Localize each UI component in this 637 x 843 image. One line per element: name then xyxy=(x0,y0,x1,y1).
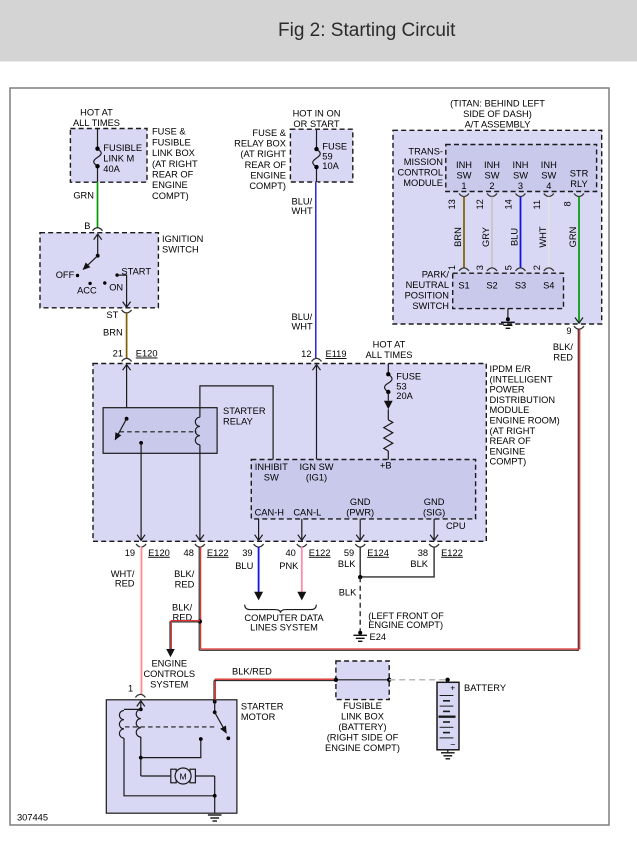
svg-text:GRN: GRN xyxy=(568,227,578,248)
svg-text:ON: ON xyxy=(109,282,123,292)
svg-text:E120: E120 xyxy=(136,349,158,359)
starter motor internals xyxy=(119,701,215,796)
svg-text:ENGINE COMPT): ENGINE COMPT) xyxy=(325,743,400,753)
svg-text:(IG1): (IG1) xyxy=(306,473,327,483)
svg-text:A/T ASSEMBLY: A/T ASSEMBLY xyxy=(465,119,531,129)
svg-text:STARTER: STARTER xyxy=(223,406,266,416)
title bar xyxy=(0,0,637,62)
arrow into IPDM from 21 xyxy=(123,365,131,419)
svg-text:OFF: OFF xyxy=(56,270,75,280)
svg-text:12: 12 xyxy=(475,199,485,209)
svg-text:13: 13 xyxy=(447,199,457,209)
svg-text:20A: 20A xyxy=(396,391,413,401)
svg-text:ACC: ACC xyxy=(77,285,97,295)
svg-text:STARTER: STARTER xyxy=(241,702,284,712)
svg-text:INHIBIT: INHIBIT xyxy=(255,462,288,472)
svg-text:MODULE: MODULE xyxy=(490,405,530,415)
svg-text:FUSE: FUSE xyxy=(396,372,421,382)
svg-text:CAN-L: CAN-L xyxy=(293,507,321,517)
svg-text:HOT IN ON: HOT IN ON xyxy=(293,108,341,118)
wire BLK/RED pin 48 down xyxy=(172,547,202,651)
ground (PNP switch) xyxy=(501,309,515,329)
svg-text:10A: 10A xyxy=(322,161,339,171)
svg-text:ENGINE: ENGINE xyxy=(490,446,526,456)
svg-text:MODULE: MODULE xyxy=(403,178,443,188)
svg-text:40A: 40A xyxy=(103,164,120,174)
svg-text:COMPT): COMPT) xyxy=(152,191,189,201)
wire WHT TCM to S4 xyxy=(538,197,549,269)
svg-text:BLK: BLK xyxy=(410,559,428,569)
connector B (ignition switch) xyxy=(84,221,102,231)
svg-text:ENGINE ROOM): ENGINE ROOM) xyxy=(490,416,560,426)
wire BLK/RED branch to engine controls system xyxy=(143,621,199,690)
svg-text:HOT AT: HOT AT xyxy=(373,339,406,349)
svg-text:FUSIBLE: FUSIBLE xyxy=(152,137,191,147)
svg-text:307445: 307445 xyxy=(17,813,48,823)
svg-text:OR START: OR START xyxy=(293,119,339,129)
svg-text:BATTERY: BATTERY xyxy=(464,683,506,693)
svg-text:RLY: RLY xyxy=(570,179,587,189)
svg-text:BLU: BLU xyxy=(235,561,253,571)
CPU box xyxy=(251,460,475,532)
svg-text:SIDE OF DASH): SIDE OF DASH) xyxy=(463,109,532,119)
svg-text:(AT RIGHT: (AT RIGHT xyxy=(490,426,536,436)
svg-text:IPDM E/R: IPDM E/R xyxy=(490,364,532,374)
svg-text:(AT RIGHT: (AT RIGHT xyxy=(152,159,198,169)
wire BLK/RED horizontal run to pin 9 riser xyxy=(199,649,580,650)
connector 12 E119 xyxy=(301,349,346,361)
svg-text:SWITCH: SWITCH xyxy=(162,245,199,255)
starter relay K1 xyxy=(103,406,266,453)
svg-text:REAR OF: REAR OF xyxy=(245,160,287,170)
TCM pin labels INH SW 1-4, STR RLY xyxy=(456,160,589,191)
wire BLU TCM to S3 xyxy=(510,197,521,269)
svg-text:+: + xyxy=(450,683,455,693)
svg-text:COMPT): COMPT) xyxy=(490,457,527,467)
svg-text:INH: INH xyxy=(456,160,472,170)
svg-text:WHT: WHT xyxy=(292,206,313,216)
connector 9 xyxy=(566,326,584,336)
svg-text:INH: INH xyxy=(541,160,557,170)
svg-text:(TITAN: BEHIND LEFT: (TITAN: BEHIND LEFT xyxy=(450,98,545,108)
relay coil xyxy=(195,386,273,540)
resistor (IPDM internal) xyxy=(384,420,393,460)
svg-text:8: 8 xyxy=(563,201,573,206)
wire BRN TCM to S1 xyxy=(453,197,464,269)
fuse 59 10A xyxy=(313,130,347,183)
svg-text:LINES SYSTEM: LINES SYSTEM xyxy=(250,623,318,633)
ignition switch xyxy=(40,233,203,308)
svg-text:19: 19 xyxy=(125,548,135,558)
svg-text:BLK/RED: BLK/RED xyxy=(232,666,272,676)
svg-text:RELAY: RELAY xyxy=(223,417,253,427)
svg-text:CONTROLS: CONTROLS xyxy=(143,669,195,679)
svg-text:DISTRIBUTION: DISTRIBUTION xyxy=(490,395,556,405)
svg-text:LINK M: LINK M xyxy=(103,154,134,164)
svg-text:1: 1 xyxy=(128,684,133,694)
A/T assembly box xyxy=(393,98,602,324)
svg-text:PNK: PNK xyxy=(279,561,299,571)
svg-text:S1: S1 xyxy=(458,281,469,291)
wire BLU pin 39 to computer data lines xyxy=(235,547,263,601)
connector 21 E120 xyxy=(113,349,158,362)
svg-text:MOTOR: MOTOR xyxy=(241,712,276,722)
svg-text:BLK/: BLK/ xyxy=(172,603,193,613)
hot at all times label (fuse 53 feed) xyxy=(365,339,412,360)
svg-text:21: 21 xyxy=(113,349,123,359)
svg-text:WHT: WHT xyxy=(292,322,313,332)
svg-text:38: 38 xyxy=(418,548,428,558)
svg-text:3: 3 xyxy=(475,265,485,270)
wire BLK/RED battery feed to starter xyxy=(214,666,336,700)
fusible link box internal wire xyxy=(334,678,392,682)
svg-text:GRY: GRY xyxy=(481,227,491,247)
svg-text:RELAY BOX: RELAY BOX xyxy=(234,139,286,149)
svg-text:(INTELLIGENT: (INTELLIGENT xyxy=(490,374,553,384)
svg-text:SW: SW xyxy=(264,473,279,483)
park/neutral position switch S1 xyxy=(405,270,564,312)
IPDM bottom connectors row xyxy=(125,544,463,558)
wire BLU/WHT fuse 59 to 12/E119 xyxy=(292,182,318,359)
svg-text:BLU/: BLU/ xyxy=(292,312,313,322)
svg-text:LINK BOX: LINK BOX xyxy=(152,148,195,158)
svg-text:BRN: BRN xyxy=(103,328,123,338)
svg-text:FUSE &: FUSE & xyxy=(252,128,286,138)
svg-text:S3: S3 xyxy=(515,281,526,291)
svg-text:CONTROL: CONTROL xyxy=(398,168,443,178)
IPDM E/R box xyxy=(93,364,560,542)
svg-text:STR: STR xyxy=(570,169,589,179)
svg-text:IGNITION: IGNITION xyxy=(162,234,203,244)
svg-text:14: 14 xyxy=(504,199,514,209)
fusible link M 40A xyxy=(94,129,142,182)
relay switch xyxy=(115,417,197,445)
svg-text:GND: GND xyxy=(424,497,445,507)
svg-text:GRN: GRN xyxy=(73,191,94,201)
svg-text:SWITCH: SWITCH xyxy=(412,301,449,311)
svg-text:REAR OF: REAR OF xyxy=(490,436,532,446)
motor M xyxy=(171,768,196,784)
svg-text:MISSION: MISSION xyxy=(404,157,443,167)
starter motor output side xyxy=(195,776,216,813)
svg-text:4: 4 xyxy=(546,181,551,191)
svg-text:E24: E24 xyxy=(370,632,387,642)
svg-text:E119: E119 xyxy=(326,349,347,359)
transmission control module U1 xyxy=(398,145,597,192)
svg-text:IGN SW: IGN SW xyxy=(299,462,333,472)
connector ST xyxy=(106,310,131,320)
svg-text:FUSIBLE: FUSIBLE xyxy=(103,143,142,153)
svg-text:TRANS-: TRANS- xyxy=(408,147,443,157)
svg-text:SW: SW xyxy=(513,171,528,181)
ground (battery) xyxy=(441,750,455,759)
starter motor xyxy=(106,700,283,813)
svg-text:INH: INH xyxy=(512,160,528,170)
svg-text:SW: SW xyxy=(485,171,500,181)
wire GRN STR RLY to pin 9 xyxy=(568,197,583,323)
svg-text:ENGINE COMPT): ENGINE COMPT) xyxy=(368,620,443,630)
fuse 53 20A xyxy=(384,364,421,420)
relay contact wire to pin 19 xyxy=(137,443,145,540)
svg-text:BLK: BLK xyxy=(339,588,357,598)
svg-text:POWER: POWER xyxy=(490,385,525,395)
svg-text:1: 1 xyxy=(461,181,466,191)
wire PNK pin 40 to computer data lines xyxy=(279,547,306,601)
svg-text:+B: +B xyxy=(380,460,392,470)
svg-text:BLK/: BLK/ xyxy=(553,342,574,352)
svg-text:59: 59 xyxy=(322,151,332,161)
svg-text:SYSTEM: SYSTEM xyxy=(150,679,188,689)
svg-text:HOT AT: HOT AT xyxy=(80,107,113,117)
arrow into IPDM from 12 + IGN SW line xyxy=(313,365,321,460)
svg-text:(PWR): (PWR) xyxy=(346,507,374,517)
connector 1 (starter motor) xyxy=(128,684,145,698)
svg-text:11: 11 xyxy=(532,200,542,210)
computer data lines system brace xyxy=(244,605,324,633)
svg-text:LINK BOX: LINK BOX xyxy=(341,712,384,722)
svg-text:BLK/: BLK/ xyxy=(174,569,195,579)
fuse & relay box (top middle) xyxy=(234,108,353,191)
fuse & fusible link box (top left) xyxy=(70,107,198,201)
TCM bottom connectors (pins 13,12,14,11,8) xyxy=(447,194,584,210)
svg-text:FUSIBLE: FUSIBLE xyxy=(343,701,382,711)
svg-text:COMPT): COMPT) xyxy=(249,181,286,191)
svg-text:RED: RED xyxy=(175,580,195,590)
svg-text:BRN: BRN xyxy=(453,227,463,247)
dashed wire to battery xyxy=(389,678,450,684)
svg-text:E122: E122 xyxy=(441,548,463,558)
svg-text:SW: SW xyxy=(457,171,472,181)
svg-text:RED: RED xyxy=(553,352,573,362)
svg-text:59: 59 xyxy=(344,548,354,558)
svg-text:53: 53 xyxy=(396,381,406,391)
ignition switch internals xyxy=(56,234,152,307)
wire BRN ST to 21/E120 xyxy=(103,313,127,359)
svg-text:WHT/: WHT/ xyxy=(111,569,135,579)
svg-text:GND: GND xyxy=(350,497,371,507)
svg-text:WHT: WHT xyxy=(538,226,548,247)
svg-text:5: 5 xyxy=(504,265,514,270)
svg-text:COMPUTER DATA: COMPUTER DATA xyxy=(244,613,324,623)
svg-text:2: 2 xyxy=(532,265,542,270)
svg-text:RED: RED xyxy=(115,579,135,589)
ground (starter motor) xyxy=(208,815,222,821)
fusible link box (battery) xyxy=(325,661,400,753)
wire BLK/RED pin 9 down to junction xyxy=(553,329,580,650)
wire BLK pin 59 xyxy=(338,547,360,578)
svg-text:2: 2 xyxy=(489,181,494,191)
battery B1 xyxy=(437,682,506,750)
svg-text:Fig 2: Starting Circuit: Fig 2: Starting Circuit xyxy=(278,20,456,41)
svg-text:40: 40 xyxy=(285,548,295,558)
svg-text:ST: ST xyxy=(106,310,118,320)
svg-text:FUSE: FUSE xyxy=(322,142,347,152)
wire BLK dashed to ground E24 xyxy=(339,577,360,631)
svg-text:39: 39 xyxy=(242,548,252,558)
svg-text:3: 3 xyxy=(518,181,523,191)
svg-text:NEUTRAL: NEUTRAL xyxy=(406,280,449,290)
svg-text:BLU: BLU xyxy=(510,228,520,246)
starter switch xyxy=(213,700,230,740)
svg-text:FUSE &: FUSE & xyxy=(152,127,186,137)
svg-text:ENGINE: ENGINE xyxy=(250,170,286,180)
svg-text:SW: SW xyxy=(541,171,556,181)
svg-text:PARK/: PARK/ xyxy=(422,270,450,280)
svg-text:48: 48 xyxy=(184,548,194,558)
svg-text:ENGINE: ENGINE xyxy=(151,659,187,669)
svg-text:INH: INH xyxy=(484,160,500,170)
svg-text:CAN-H: CAN-H xyxy=(255,507,284,517)
svg-text:BLK: BLK xyxy=(338,559,356,569)
svg-text:CPU: CPU xyxy=(446,521,466,531)
wire GRY TCM to S2 xyxy=(481,197,492,269)
svg-text:(SIG): (SIG) xyxy=(423,507,445,517)
svg-text:ENGINE: ENGINE xyxy=(152,180,188,190)
wire GRN fusible link to ignition switch B xyxy=(73,182,97,228)
arrow at pin 48 xyxy=(196,535,204,541)
svg-text:E120: E120 xyxy=(148,548,170,558)
svg-text:(BATTERY): (BATTERY) xyxy=(338,722,386,732)
svg-text:E122: E122 xyxy=(309,548,331,558)
wire WHT/RED pin 19 to starter motor 1 xyxy=(111,547,142,695)
ground E24 xyxy=(353,611,444,642)
svg-text:9: 9 xyxy=(566,326,571,336)
PNP connector pins 1,3,5,2 xyxy=(447,265,554,271)
svg-text:E124: E124 xyxy=(367,548,389,558)
svg-text:(RIGHT SIDE OF: (RIGHT SIDE OF xyxy=(327,733,399,743)
CPU pin stems to IPDM bottom xyxy=(255,519,439,540)
svg-text:S4: S4 xyxy=(543,281,554,291)
svg-text:ALL TIMES: ALL TIMES xyxy=(365,350,412,360)
svg-text:ALL TIMES: ALL TIMES xyxy=(73,118,120,128)
svg-text:POSITION: POSITION xyxy=(405,291,449,301)
svg-text:REAR OF: REAR OF xyxy=(152,170,194,180)
svg-text:B: B xyxy=(84,221,90,231)
svg-text:S2: S2 xyxy=(486,281,497,291)
svg-text:−: − xyxy=(450,740,455,750)
svg-text:(AT RIGHT: (AT RIGHT xyxy=(240,149,286,159)
wire BLK pin 38 xyxy=(358,547,434,580)
svg-text:E122: E122 xyxy=(207,548,229,558)
svg-text:12: 12 xyxy=(301,349,311,359)
svg-text:M: M xyxy=(180,771,187,781)
